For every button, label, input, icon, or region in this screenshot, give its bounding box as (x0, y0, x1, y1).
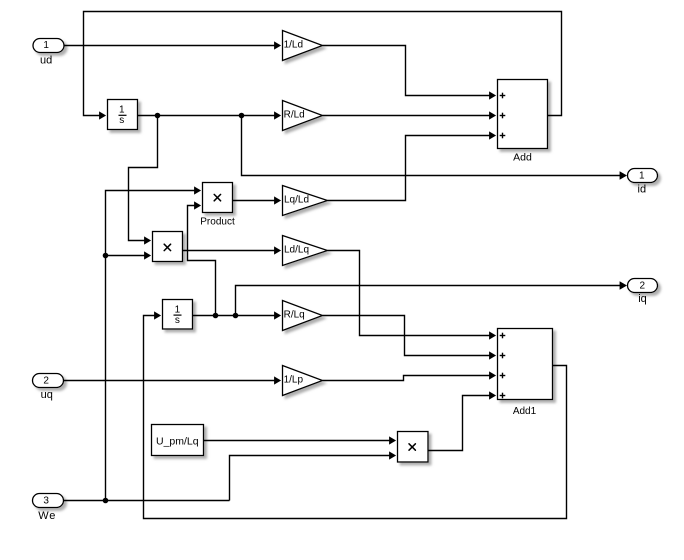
outport 2 iq (628, 279, 658, 293)
svg-text:1: 1 (119, 105, 125, 116)
wire gain R/Lq output to Add1 input 2 (323, 316, 497, 360)
svg-text:R/Lq: R/Lq (284, 310, 305, 321)
integrator 1/s (108, 100, 138, 130)
svg-text:Add1: Add1 (513, 406, 537, 417)
svg-text:3: 3 (43, 495, 49, 506)
svg-text:Ld/Lq: Ld/Lq (284, 245, 309, 256)
wire We to Product2 input 2 (230, 451, 397, 500)
wire We input run (64, 500, 230, 502)
inport 1 ud (33, 39, 64, 53)
svg-text:1/Ld: 1/Ld (284, 40, 303, 51)
svg-text:s: s (119, 115, 124, 126)
svg-text:s: s (175, 315, 180, 326)
wire Add output feedback to Integrator input (84, 12, 562, 120)
svg-text:2: 2 (43, 375, 49, 386)
inport 2 uq (33, 374, 64, 388)
wire uq to gain 1/Lp (64, 376, 282, 384)
gain R/Ld (283, 101, 323, 131)
gain Ld/Lq (283, 236, 328, 266)
integrator 1/s second (163, 300, 193, 330)
svg-text:1: 1 (43, 40, 49, 51)
svg-text:1: 1 (639, 170, 645, 181)
wire constant U_pm/Lq to Product2 input 1 (204, 436, 397, 444)
svg-text:Add: Add (513, 152, 532, 164)
junction Integrator1 output A (213, 313, 219, 319)
svg-text:id: id (638, 183, 647, 195)
junction We (103, 498, 109, 504)
inport 3 We (33, 494, 64, 508)
wire Integrator output to gain R/Ld (138, 111, 282, 119)
svg-text:U_pm/Lq: U_pm/Lq (156, 435, 199, 447)
constant U_pm/Lq (152, 425, 204, 456)
svg-text:2: 2 (640, 280, 646, 291)
wire gain R/Ld output to Add input 2 (323, 111, 497, 119)
wire iq feedback to Product input 2 (188, 201, 216, 315)
svg-text:1: 1 (175, 304, 181, 315)
wire gain 1/Lp output to Add1 input 3 (323, 371, 497, 380)
product Product (203, 183, 233, 213)
wire id branch to Product1 input 1 (129, 116, 158, 245)
product Product1 (153, 232, 183, 262)
wire gain Lq/Ld output to Add input 3 (328, 131, 497, 200)
gain Lq/Ld (283, 186, 328, 216)
svg-text:We: We (38, 510, 56, 522)
gain 1/Ld (283, 31, 323, 61)
sum Add1 (498, 329, 553, 400)
junction Integrator output B (239, 113, 245, 119)
junction Integrator1 output B (233, 313, 239, 319)
gain 1/Lp (283, 366, 323, 396)
junction We riser (103, 253, 109, 259)
svg-text:R/Ld: R/Ld (284, 110, 305, 121)
junction Integrator output A (155, 113, 161, 119)
gain R/Lq (283, 301, 323, 331)
svg-text:Product: Product (200, 217, 235, 228)
product Product2 (398, 432, 429, 463)
wire Add1 output feedback to Integrator1 input (144, 311, 567, 518)
wire We riser to Product input 1 (106, 186, 202, 500)
wire Product output to gain Lq/Ld (233, 196, 282, 204)
wire Product2 output to Add1 input 4 (428, 391, 496, 450)
svg-text:uq: uq (41, 389, 53, 401)
wire ud to gain 1/Ld (64, 41, 281, 49)
wire We to Product1 input 2 (106, 251, 152, 259)
wire Integrator1 output to gain R/Lq (193, 311, 282, 319)
wire gain 1/Ld output to Add input 1 (323, 46, 497, 100)
svg-text:Lq/Ld: Lq/Ld (284, 195, 309, 206)
sum Add (498, 80, 548, 149)
svg-text:1/Lp: 1/Lp (284, 375, 304, 386)
wire Product1 output to gain Ld/Lq (183, 246, 282, 254)
wire id output branch (242, 116, 628, 180)
wire iq output branch (236, 281, 628, 315)
svg-text:ud: ud (40, 54, 52, 66)
outport 1 id (628, 169, 658, 183)
svg-text:iq: iq (638, 293, 647, 305)
wire gain Ld/Lq output to Add1 input 1 (328, 251, 497, 340)
